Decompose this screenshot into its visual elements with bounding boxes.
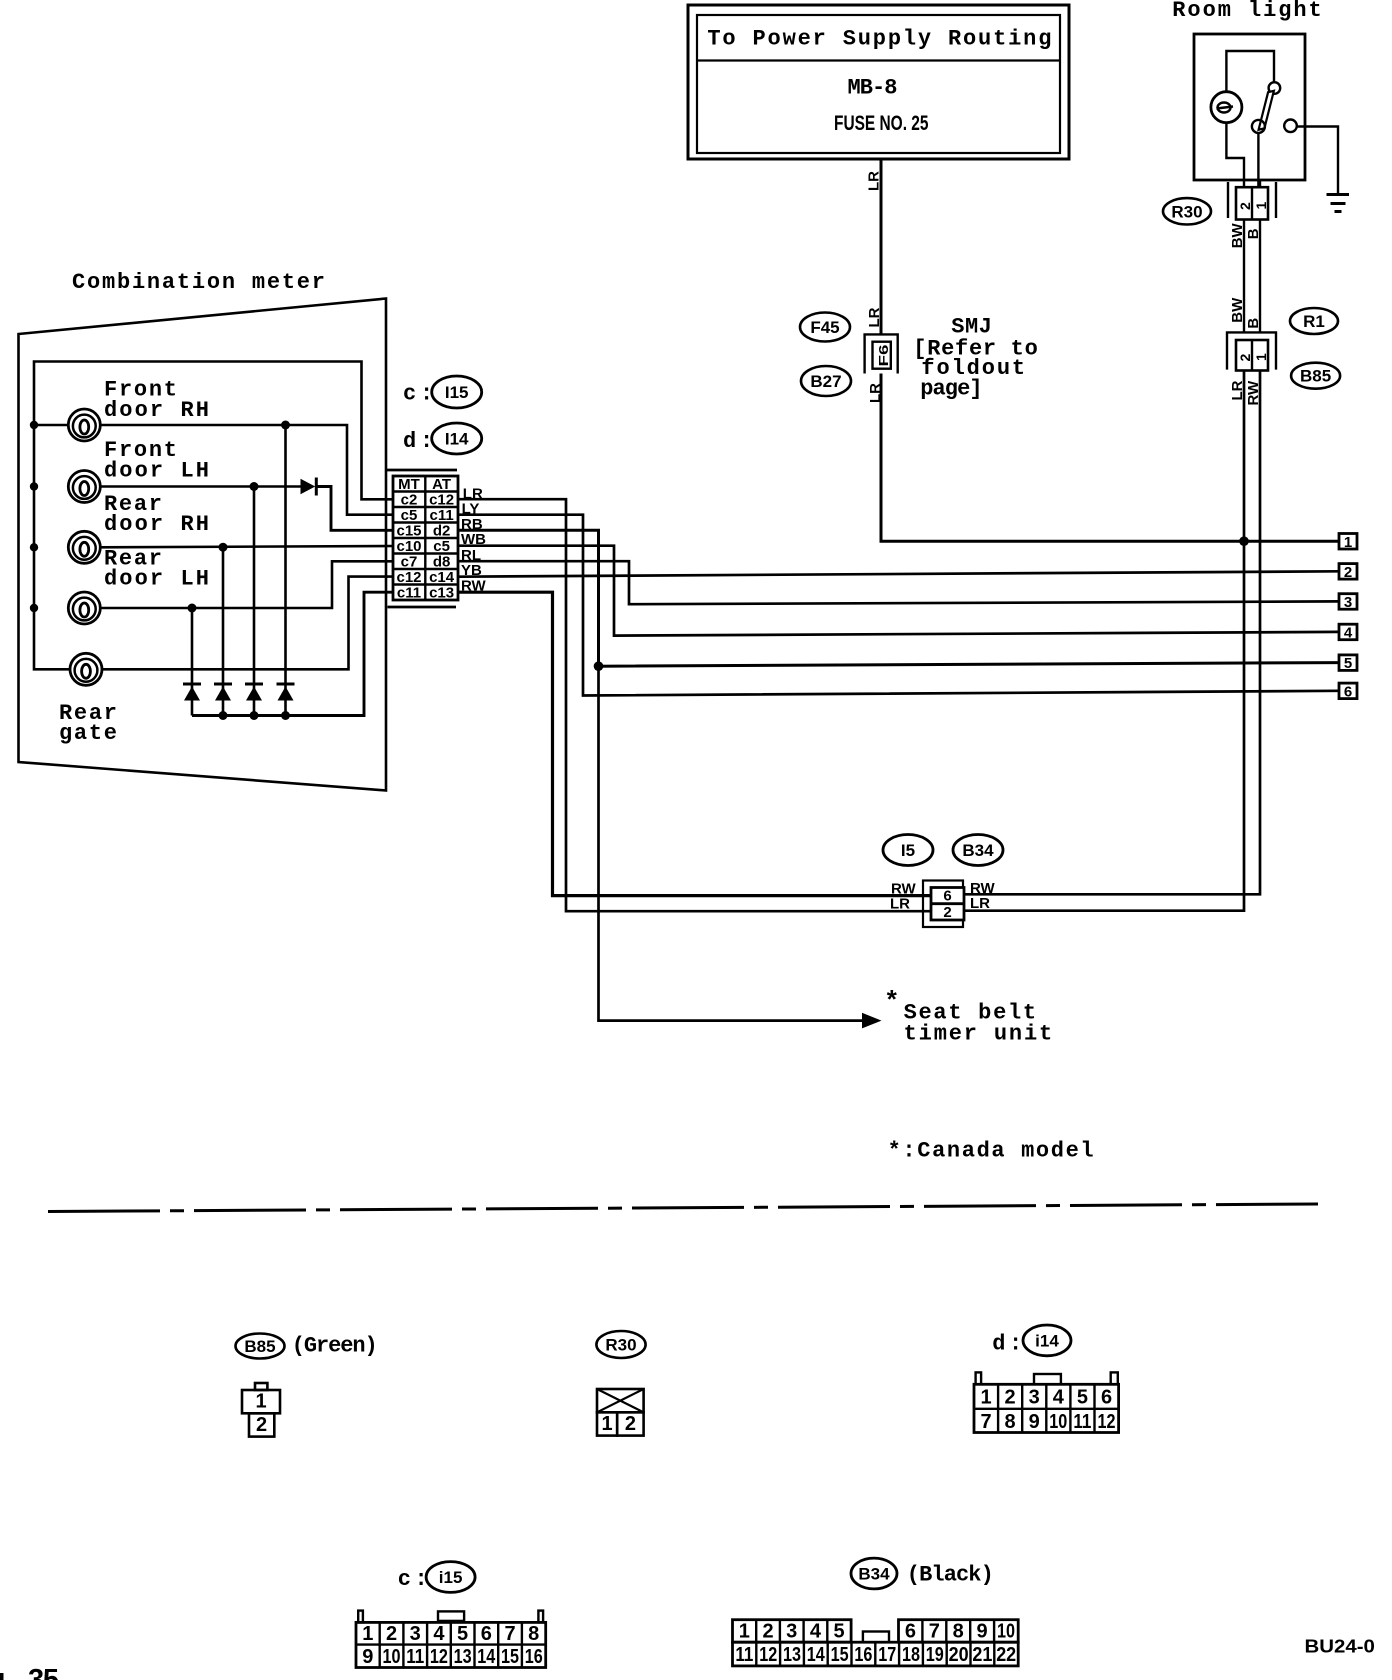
connector label R30 oval (lower) [596,1331,645,1358]
svg-text:B34: B34 [962,841,994,860]
MB-8 title divider [697,59,1060,61]
connector label R30 oval [1163,198,1211,224]
svg-text:I15: I15 [445,383,469,402]
svg-text:timer unit: timer unit [904,1022,1055,1047]
node: junction LR room light / terminal 1 [1239,536,1249,546]
svg-text:door LH: door LH [104,459,211,484]
connector label B34 oval [953,835,1003,866]
svg-text:22: 22 [996,1644,1016,1666]
page number fragment bottom left [0,1673,4,1680]
svg-text:8: 8 [1005,1411,1016,1433]
node: bus junction rear door LH [30,604,38,612]
node: RB junction to seat belt timer [594,661,604,671]
svg-text:LR: LR [866,307,883,327]
svg-text:17: 17 [878,1644,896,1666]
svg-text:1: 1 [739,1621,750,1643]
diode D5 (front door LH, pointing right) [301,479,316,495]
svg-text:3: 3 [1029,1386,1040,1408]
connector label B85 oval [1291,363,1340,389]
svg-text:3: 3 [1344,594,1352,611]
label BW upper [1229,222,1246,248]
svg-text:10: 10 [383,1646,401,1668]
wire BW: R30 to R1/B85 left [1243,220,1245,341]
main harness wires [458,159,1357,1164]
MB-8 power supply routing block [688,5,1069,403]
svg-text:20: 20 [949,1644,969,1666]
node: row2 junction to diode 3 [250,482,259,491]
svg-text:13: 13 [454,1646,472,1668]
svg-text::: : [1009,1332,1024,1357]
svg-text:1: 1 [1253,202,1269,210]
svg-text:2: 2 [1237,354,1253,362]
svg-text:12: 12 [430,1646,448,1668]
svg-text:door RH: door RH [104,512,211,537]
lamp: front door RH switch-lamp [34,409,100,441]
svg-text:d8: d8 [433,554,451,571]
room light section [964,0,1349,911]
svg-text:*: * [884,987,902,1017]
svg-text:R1: R1 [1303,312,1325,331]
wire row4: rear door LH to RL table row [100,561,393,608]
svg-text:15: 15 [831,1644,849,1666]
svg-text:c12: c12 [429,492,454,509]
wire WB: table to terminal 4 [458,546,1339,636]
svg-text:c13: c13 [429,585,454,602]
table cell texts [396,476,454,602]
lower section: connector pin layouts [0,1325,1375,1680]
svg-text:c10: c10 [396,538,421,555]
svg-text:6: 6 [481,1623,492,1645]
svg-text:10: 10 [997,1621,1015,1643]
svg-text:4: 4 [433,1623,445,1645]
svg-text:i15: i15 [439,1568,463,1587]
svg-text:B: B [1245,228,1262,239]
connector label B85 oval (lower) [236,1334,285,1359]
table grid [393,476,458,600]
wire: diode cathode bus to RW table row [192,592,393,715]
wire row1: front door RH to LY table row [100,425,393,515]
label seat belt timer unit [884,987,1054,1047]
svg-text:2: 2 [1005,1386,1016,1408]
svg-text:LR: LR [890,896,910,913]
node: diode bus junction 3 [250,711,259,720]
svg-text:c2: c2 [401,492,418,509]
wire: lamp bottom to connector R30 left [1226,123,1244,188]
connector R1/B85 inner box [1236,340,1269,371]
node: bus junction front door RH [30,421,38,429]
svg-text:16: 16 [854,1644,872,1666]
svg-text:2: 2 [1344,564,1352,581]
wire LR: table to bottom joint connector [458,499,931,911]
wire: diode drop 3 [253,487,256,716]
svg-text:16: 16 [525,1646,543,1668]
room light lamp [1211,92,1242,123]
joint connector I5/B34 [883,835,1003,928]
svg-text:B34: B34 [858,1565,890,1584]
svg-text:c: c [403,382,418,407]
connector label I5 oval [883,835,933,866]
svg-text:2: 2 [625,1413,636,1435]
svg-text:BW: BW [1229,222,1246,248]
diode D4 (pointing up) [277,684,295,701]
svg-text:2: 2 [762,1621,773,1643]
svg-text:c11: c11 [397,585,421,602]
svg-text:5: 5 [834,1621,845,1643]
lamp: front door LH switch-lamp [68,471,100,503]
svg-text:B85: B85 [244,1337,275,1356]
svg-text:1: 1 [362,1623,373,1645]
svg-text:c: c [398,1567,413,1592]
svg-text:4: 4 [810,1621,822,1643]
lamp: rear door RH switch-lamp [68,531,100,563]
svg-text:c5: c5 [433,538,450,555]
diode D3 (pointing up) [245,684,263,701]
room light box [1194,34,1305,180]
joint connector inner box 6/2 [931,888,964,921]
label front door RH [104,378,211,424]
label rear door RH [104,492,211,537]
svg-text:2: 2 [1237,202,1253,210]
svg-text:LR: LR [867,383,884,403]
SMJ connector F6 inner box [873,342,891,369]
connector plate top [387,469,457,472]
svg-text:35: 35 [28,1664,59,1680]
wire: lamp top to switch pivot [1226,51,1274,92]
svg-text:B27: B27 [810,372,841,391]
svg-text:d: d [403,429,418,454]
wire RW: table to bottom joint connector [458,592,931,895]
label LR below SMJ [867,383,884,403]
svg-text:6: 6 [943,888,951,905]
label rear gate [59,701,119,746]
terminal box 6 [1339,683,1357,700]
switch moving contact [1252,120,1265,133]
svg-text:I14: I14 [445,430,469,449]
node: row1 junction to diode 4 [281,421,290,430]
svg-text:Combination meter: Combination meter [72,270,327,295]
svg-text:c12: c12 [396,569,421,586]
svg-text:1: 1 [1344,534,1352,551]
wire LR: B85 down to bottom joint connector [964,371,1244,911]
svg-text:BW: BW [1229,297,1246,323]
svg-text:11: 11 [735,1644,753,1666]
node: row4 junction to diode 1 [188,604,197,613]
label front door LH [104,438,211,484]
svg-text:R30: R30 [1171,202,1202,221]
svg-text:c11: c11 [429,507,453,524]
lamp: rear gate switch-lamp [70,653,102,685]
svg-text:9: 9 [362,1646,373,1668]
connector label B34 oval (lower) [851,1558,897,1589]
svg-text:5: 5 [457,1623,468,1645]
node: diode bus junction 4 [281,711,290,720]
node: bus junction front door LH [30,482,38,490]
svg-text:c14: c14 [429,569,455,586]
svg-text:c5: c5 [401,507,418,524]
switch fixed contact [1284,120,1297,133]
wire: switch to connector R30 right [1258,133,1260,188]
combination meter outline (trapezoid) [19,299,387,791]
svg-text:7: 7 [504,1623,515,1645]
svg-text:7: 7 [980,1411,991,1433]
svg-text:14: 14 [477,1646,496,1668]
switch pivot contact [1269,82,1281,94]
svg-text:MT: MT [398,476,420,493]
node: row3 junction to diode 2 [219,543,228,552]
connector R30 pin layout [597,1389,644,1436]
svg-text:6: 6 [905,1621,916,1643]
wire: diode drop 4 [284,425,287,716]
wire: MB-8 feed down and to terminal 1 [881,159,1339,541]
svg-text:F6: F6 [876,345,891,367]
svg-text:9: 9 [1029,1411,1040,1433]
wire color labels at table exit [461,486,487,595]
svg-text:To Power Supply Routing: To Power Supply Routing [707,27,1053,52]
svg-text:5: 5 [1077,1386,1088,1408]
svg-text:12: 12 [1098,1411,1116,1433]
svg-text:18: 18 [902,1644,920,1666]
svg-text:c15: c15 [396,523,421,540]
label LR below MB-8 box [866,171,883,191]
wire RL: table to terminal 3 [458,561,1339,604]
wire B: R30 to R1/B85 right [1259,220,1261,341]
wire row5: rear gate to YB table row [102,577,393,670]
svg-text:d2: d2 [433,523,451,540]
svg-text:3: 3 [410,1623,421,1645]
svg-text:door RH: door RH [104,398,211,423]
svg-text:2: 2 [943,904,951,921]
terminal box 3 [1339,594,1357,611]
connector plate bottom [388,606,457,609]
svg-text:1: 1 [980,1386,991,1408]
svg-text:B85: B85 [1300,367,1331,386]
svg-text:8: 8 [953,1621,964,1643]
switch lever [1259,91,1274,130]
SMJ connector F6 outer bracket [865,334,898,373]
wire: branch to seat belt timer unit [599,666,867,1020]
svg-text:10: 10 [1049,1411,1067,1433]
svg-text:(Black): (Black) [907,1563,996,1588]
wire YB: table to terminal 2 [458,571,1339,576]
svg-text:R30: R30 [605,1336,636,1355]
wire: switch fixed contact to ground [1297,127,1339,194]
svg-text:11: 11 [406,1646,424,1668]
MB-8 outer box [688,5,1069,159]
svg-text:3: 3 [786,1621,797,1643]
separator dash-dot line [48,1204,1318,1212]
svg-text:21: 21 [972,1644,992,1666]
connector F45/B27 ellipse F45 [800,313,850,342]
svg-text:14: 14 [807,1644,826,1666]
wire: diode drop 1 [191,608,194,716]
connector B34 pin layout [733,1620,1019,1667]
label rear door LH [104,547,211,592]
label LR below B85 [1229,380,1246,400]
svg-text:15: 15 [501,1646,519,1668]
wire RB: table to terminal 5 [458,530,1339,666]
svg-text:I5: I5 [901,841,915,860]
svg-text:AT: AT [432,476,451,493]
diode D2 (pointing up) [214,684,232,701]
label BW lower [1229,297,1246,323]
svg-text:12: 12 [759,1644,777,1666]
svg-text:19: 19 [926,1644,944,1666]
terminal box 5 [1339,655,1357,672]
svg-text:MB-8: MB-8 [848,76,900,101]
terminal box 2 [1339,564,1357,581]
label B upper [1245,228,1262,239]
svg-text:1: 1 [1253,353,1269,361]
wire: diode drop 2 [222,547,225,715]
connector label R1 oval [1290,308,1338,334]
svg-text:d: d [992,1332,1007,1357]
svg-text:gate: gate [59,721,119,746]
svg-text:11: 11 [1073,1411,1091,1433]
svg-text:4: 4 [1053,1386,1065,1408]
connector F45/B27 ellipse B27 [801,366,851,396]
svg-text:c7: c7 [401,554,418,571]
svg-text:i14: i14 [1035,1331,1059,1350]
wire RW: B85 down to bottom joint connector [964,371,1260,895]
terminal box 4 [1339,624,1357,641]
wire row3: rear door RH to WB table row [100,546,393,547]
label SMJ refer to foldout page [913,314,1040,401]
svg-text:LR: LR [970,895,990,912]
wire LY: table to terminal 6 [458,515,1339,696]
svg-text:1: 1 [255,1391,266,1413]
combination meter block [19,270,394,791]
svg-text:F45: F45 [810,318,839,337]
svg-text:LR: LR [866,171,883,191]
svg-text:2: 2 [256,1414,267,1436]
svg-text:6: 6 [1101,1386,1112,1408]
svg-text:13: 13 [783,1644,801,1666]
wire row2: front door LH to diode and RB row [100,485,300,488]
connector i15 pin layout [356,1611,546,1668]
svg-text:FUSE NO. 25: FUSE NO. 25 [834,112,929,135]
svg-text:(Green): (Green) [292,1334,380,1359]
label RW below B85 [1245,380,1262,406]
svg-text:page]: page] [920,377,984,402]
svg-text:BU24-0: BU24-0 [1305,1636,1375,1657]
label B lower [1245,318,1262,329]
connector R30 symbol [1228,182,1276,220]
lamp: rear door LH switch-lamp [68,592,100,624]
svg-text:B: B [1245,318,1262,329]
svg-text:*:Canada model: *:Canada model [888,1139,1096,1164]
svg-text:door LH: door LH [104,567,211,592]
node: bus junction rear door RH [30,543,38,551]
terminal box 1 [1339,534,1357,551]
label LR above SMJ [866,307,883,327]
diode D1 (pointing up) [183,684,201,701]
svg-text:Room light: Room light [1172,0,1323,23]
svg-text:6: 6 [1344,683,1352,700]
connector i14 pin layout [974,1372,1119,1432]
wire: lamp common bus loop to LR row [34,362,393,670]
svg-text:4: 4 [1344,625,1353,642]
svg-text:8: 8 [528,1623,539,1645]
connector R1/B85 outer bracket [1227,332,1276,369]
svg-text:5: 5 [1344,655,1352,672]
connector table c/d (MT/AT) [387,376,487,607]
svg-text:7: 7 [929,1621,940,1643]
node: diode bus junction 2 [219,711,228,720]
arrowhead to seat belt timer unit [862,1013,882,1029]
svg-text:9: 9 [977,1621,988,1643]
MB-8 inner box [697,15,1060,153]
joint connector outer box [923,881,963,928]
svg-text:2: 2 [386,1623,397,1645]
ground symbol [1327,195,1350,212]
label F6 rotated [876,345,891,367]
connector B85 pin layout [242,1383,280,1437]
svg-text:1: 1 [602,1413,613,1435]
